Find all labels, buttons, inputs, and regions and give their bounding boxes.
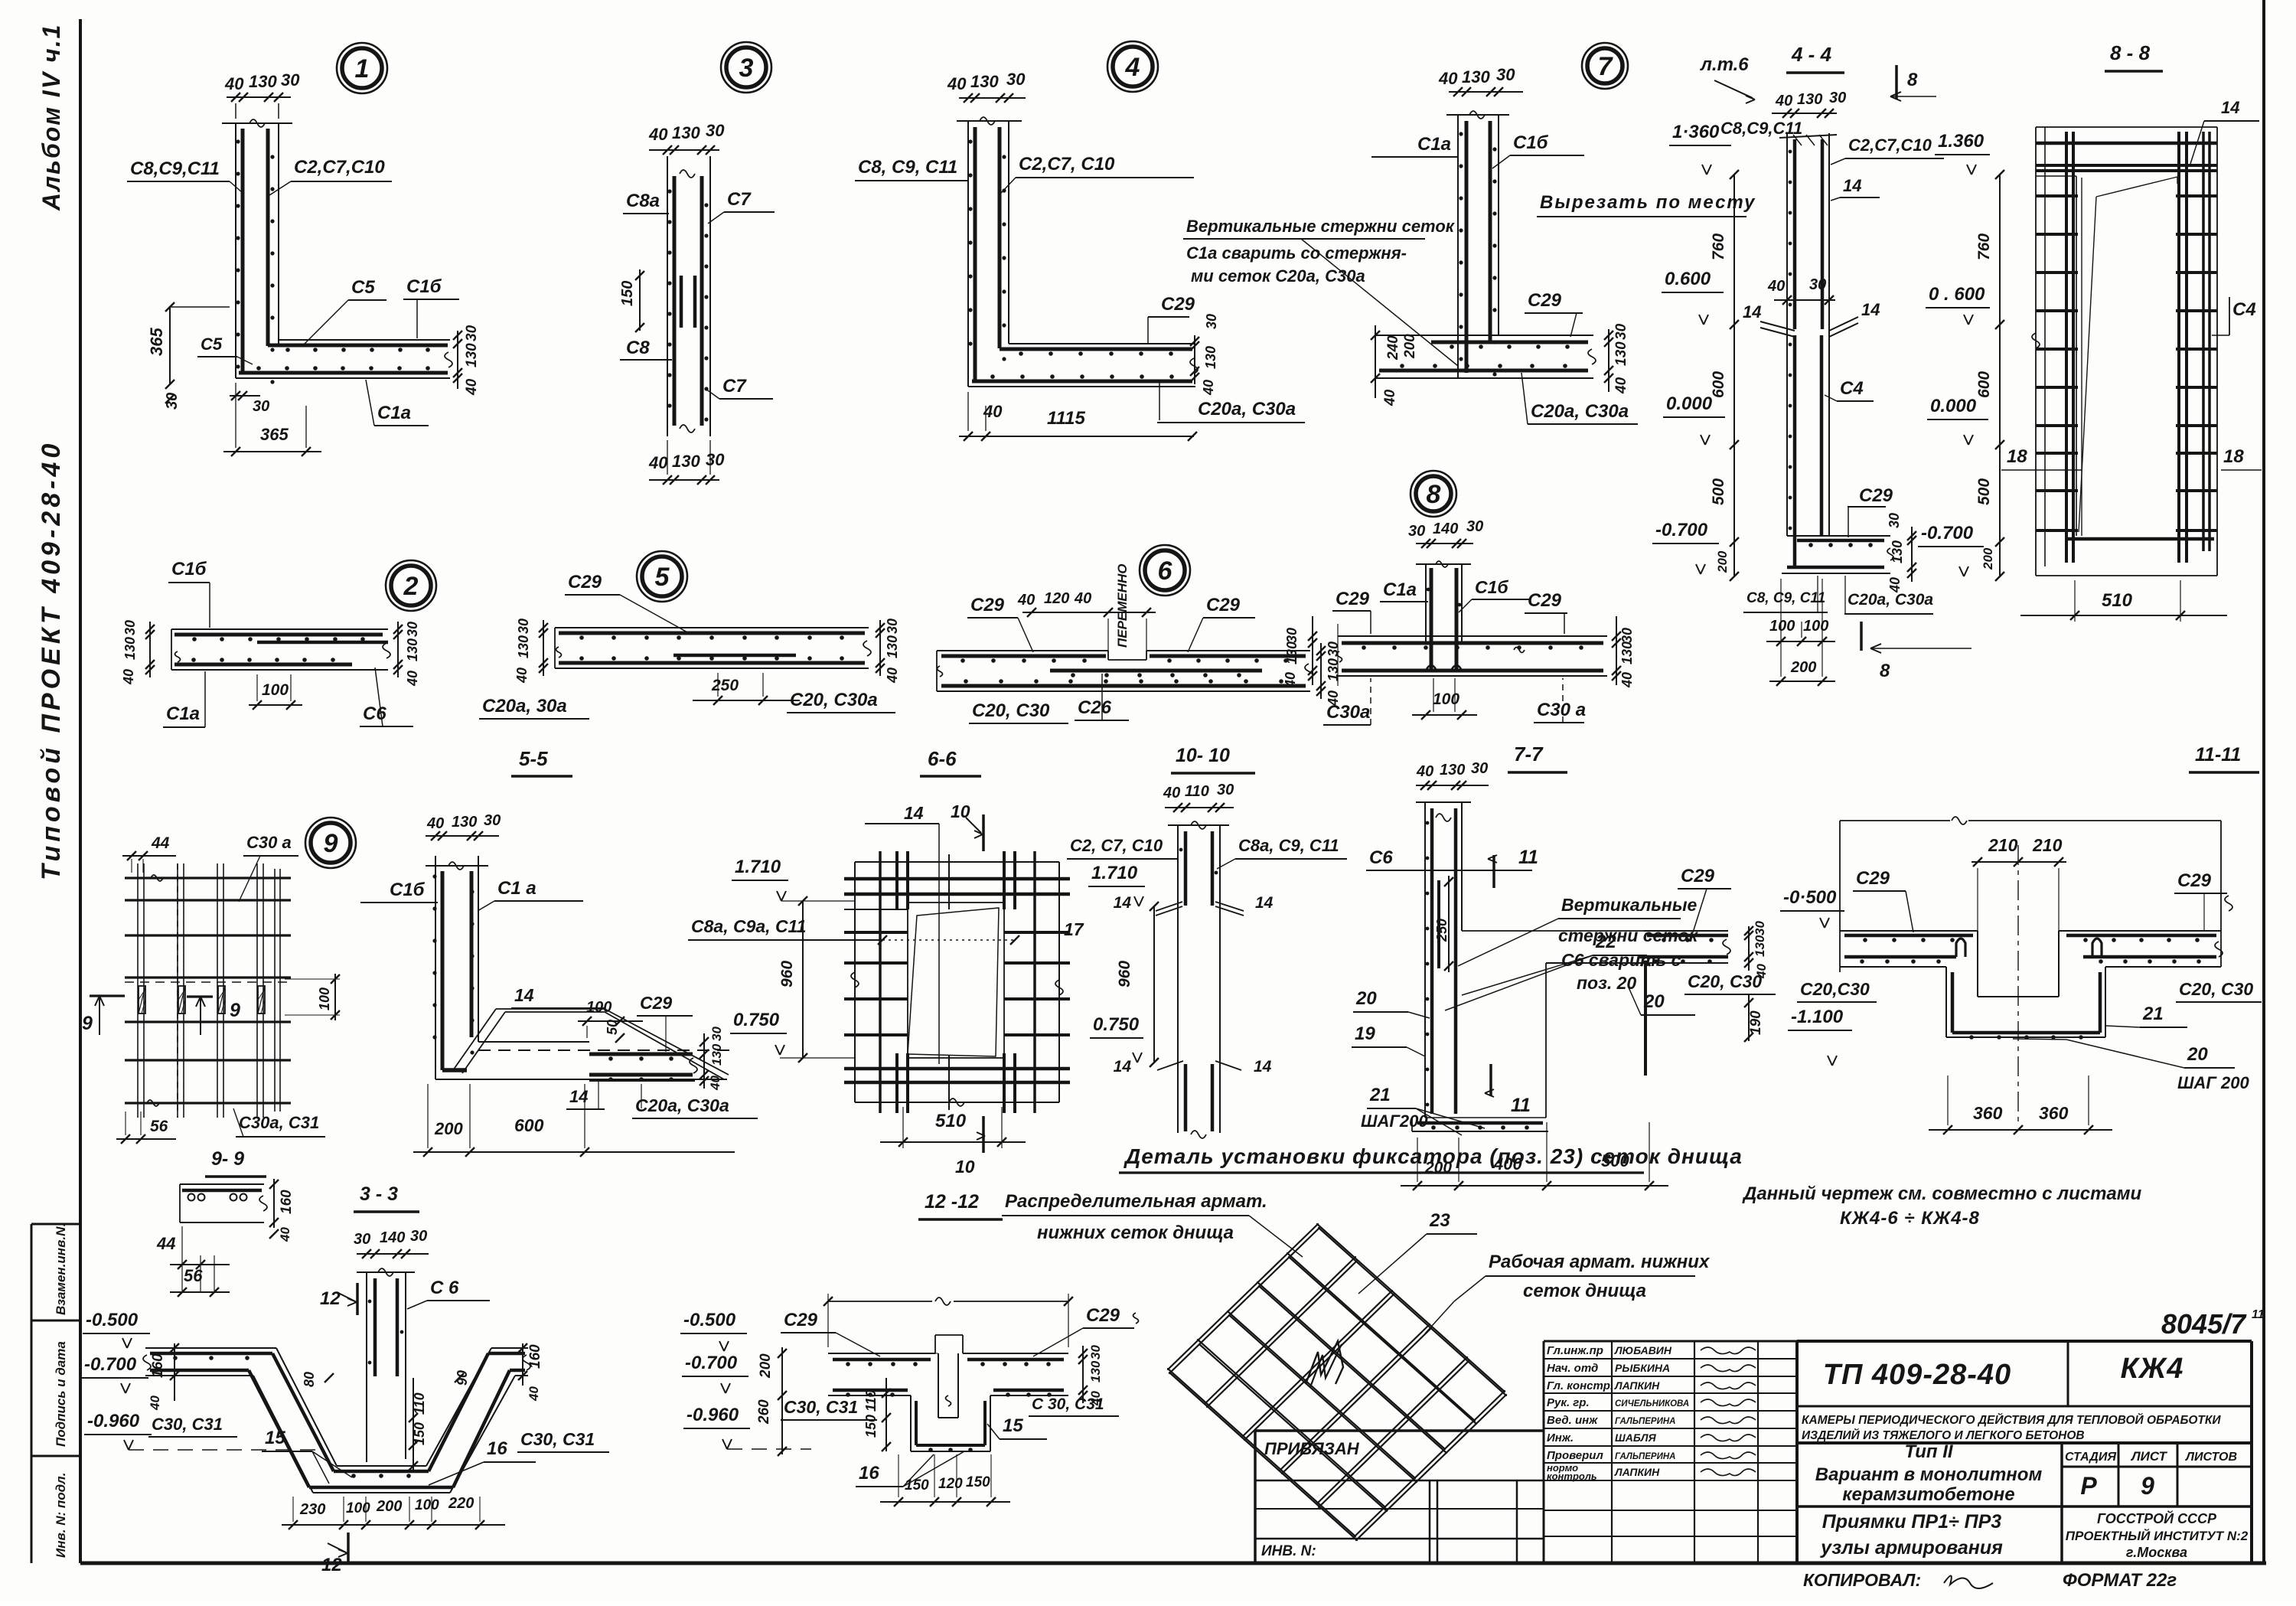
svg-text:230: 230 [299, 1501, 325, 1518]
svg-text:С20а, С30а: С20а, С30а [1198, 399, 1296, 419]
svg-text:-0.700: -0.700 [685, 1353, 738, 1373]
svg-text:30: 30 [410, 1228, 427, 1245]
svg-text:130: 130 [885, 635, 900, 658]
svg-text:44: 44 [151, 834, 170, 852]
svg-text:960: 960 [1116, 961, 1133, 987]
svg-text:С 30, С31: С 30, С31 [1032, 1395, 1104, 1413]
svg-text:18: 18 [2223, 446, 2244, 467]
svg-text:КОПИРОВАЛ:: КОПИРОВАЛ: [1803, 1570, 1921, 1590]
svg-text:0.000: 0.000 [1666, 393, 1713, 414]
svg-text:365: 365 [147, 328, 166, 356]
svg-text:1115: 1115 [1047, 408, 1085, 429]
svg-text:130: 130 [1613, 341, 1629, 366]
svg-text:100: 100 [1769, 618, 1795, 635]
svg-text:130: 130 [672, 452, 700, 471]
svg-text:0.750: 0.750 [733, 1010, 780, 1030]
svg-text:0.750: 0.750 [1093, 1014, 1140, 1035]
svg-text:С30, С31: С30, С31 [152, 1415, 223, 1434]
svg-text:ЛИСТОВ: ЛИСТОВ [2185, 1451, 2237, 1464]
svg-text:20: 20 [1643, 991, 1665, 1012]
svg-text:200: 200 [758, 1353, 774, 1379]
svg-text:РЫБКИНА: РЫБКИНА [1615, 1362, 1670, 1374]
svg-text:С4: С4 [2232, 299, 2256, 320]
svg-text:500: 500 [1975, 478, 1993, 505]
svg-text:-1.100: -1.100 [1791, 1007, 1844, 1027]
svg-text:30: 30 [1284, 628, 1300, 643]
svg-text:30: 30 [1829, 90, 1846, 106]
svg-text:С7: С7 [722, 376, 747, 397]
svg-text:С8, С9, С11: С8, С9, С11 [1746, 590, 1825, 606]
svg-text:С20а, С30а: С20а, С30а [1531, 401, 1629, 422]
svg-text:С2,С7, С10: С2,С7, С10 [1019, 154, 1115, 175]
svg-text:90: 90 [455, 1370, 470, 1386]
svg-text:контроль: контроль [1547, 1471, 1597, 1482]
svg-text:Вед. инж: Вед. инж [1547, 1414, 1598, 1427]
svg-text:130: 130 [1203, 346, 1218, 369]
svg-text:110: 110 [1185, 783, 1209, 800]
svg-text:40: 40 [1201, 380, 1216, 396]
svg-text:200: 200 [1402, 334, 1418, 359]
svg-text:С2, С7, С10: С2, С7, С10 [1070, 836, 1163, 855]
svg-text:30: 30 [164, 393, 181, 410]
svg-text:узлы армирования: узлы армирования [1819, 1537, 2003, 1559]
svg-text:8: 8 [1907, 70, 1918, 90]
svg-text:40: 40 [1613, 377, 1629, 394]
svg-text:Гл. констр.: Гл. констр. [1547, 1379, 1613, 1392]
svg-text:50: 50 [605, 1020, 620, 1035]
svg-text:100: 100 [415, 1497, 439, 1513]
svg-text:30: 30 [1809, 276, 1826, 293]
svg-text:11-11: 11-11 [2195, 744, 2241, 765]
svg-text:С29: С29 [1086, 1305, 1120, 1326]
svg-text:210: 210 [1988, 835, 2018, 855]
svg-text:С1б: С1б [390, 880, 426, 900]
svg-text:ПЕРЕМЕННО: ПЕРЕМЕННО [1115, 563, 1130, 648]
svg-text:Данный чертеж см. совместно с: Данный чертеж см. совместно с листами [1742, 1183, 2142, 1204]
svg-text:С30, С31: С30, С31 [520, 1429, 595, 1449]
svg-text:20: 20 [1355, 988, 1377, 1009]
svg-text:-0.500: -0.500 [86, 1310, 139, 1330]
svg-text:130: 130 [1797, 91, 1822, 108]
svg-text:С29: С29 [1859, 485, 1893, 506]
svg-text:С8,С9,С11: С8,С9,С11 [130, 158, 220, 179]
svg-text:С6: С6 [363, 703, 386, 724]
svg-text:керамзитобетоне: керамзитобетоне [1842, 1484, 2014, 1505]
svg-text:40: 40 [1416, 763, 1433, 780]
svg-text:600: 600 [1975, 371, 1993, 398]
svg-text:С30 а: С30 а [246, 833, 292, 852]
svg-text:30: 30 [1204, 314, 1219, 329]
svg-text:100: 100 [1803, 618, 1828, 635]
svg-text:Вертикальные: Вертикальные [1561, 895, 1697, 915]
svg-text:С1б: С1б [406, 276, 442, 297]
svg-text:30: 30 [1217, 782, 1234, 798]
svg-text:130: 130 [1462, 67, 1490, 87]
svg-text:500: 500 [1710, 478, 1727, 505]
svg-text:10: 10 [955, 1157, 975, 1177]
svg-text:9: 9 [82, 1013, 93, 1034]
svg-text:14: 14 [1255, 894, 1274, 912]
svg-text:С1б: С1б [171, 559, 207, 579]
svg-text:40: 40 [1283, 672, 1298, 688]
svg-text:130: 130 [516, 635, 531, 658]
svg-text:40: 40 [121, 669, 136, 685]
svg-text:14: 14 [1114, 894, 1132, 912]
svg-text:С20, С30: С20, С30 [972, 700, 1050, 721]
svg-text:130: 130 [1890, 540, 1905, 563]
svg-text:30: 30 [706, 450, 725, 469]
svg-text:С29: С29 [1336, 589, 1370, 609]
svg-text:4: 4 [1125, 53, 1140, 82]
svg-text:23: 23 [1429, 1210, 1450, 1231]
svg-text:56: 56 [150, 1118, 168, 1135]
svg-text:100: 100 [346, 1500, 370, 1516]
svg-text:210: 210 [2032, 835, 2063, 855]
svg-text:14: 14 [904, 803, 924, 823]
svg-text:С29: С29 [1206, 595, 1241, 615]
svg-text:40: 40 [708, 1076, 722, 1091]
svg-text:40: 40 [527, 1386, 541, 1402]
svg-text:120: 120 [938, 1476, 963, 1492]
svg-text:30: 30 [1471, 760, 1488, 777]
svg-text:С29: С29 [970, 595, 1005, 615]
svg-text:С1б: С1б [1475, 577, 1508, 597]
svg-text:40: 40 [426, 815, 444, 832]
svg-text:200: 200 [1715, 550, 1730, 573]
svg-text:9: 9 [324, 829, 338, 858]
svg-text:КАМЕРЫ ПЕРИОДИЧЕСКОГО ДЕЙСТВИЯ: КАМЕРЫ ПЕРИОДИЧЕСКОГО ДЕЙСТВИЯ ДЛЯ ТЕПЛО… [1802, 1413, 2221, 1427]
svg-text:Инж.: Инж. [1547, 1431, 1574, 1444]
svg-text:нижних сеток днища: нижних сеток днища [1037, 1222, 1234, 1243]
svg-text:КЖ4: КЖ4 [2121, 1353, 2184, 1385]
svg-text:30: 30 [405, 622, 420, 637]
svg-text:40: 40 [1619, 672, 1635, 688]
svg-text:22: 22 [1595, 932, 1616, 952]
svg-text:Инв. N: подл.: Инв. N: подл. [54, 1473, 68, 1558]
svg-text:Рук. гр.: Рук. гр. [1547, 1396, 1590, 1409]
svg-text:160: 160 [279, 1190, 295, 1214]
svg-text:С30, С31: С30, С31 [784, 1397, 858, 1417]
svg-text:40: 40 [648, 453, 668, 472]
svg-text:КЖ4-6 ÷ КЖ4-8: КЖ4-6 ÷ КЖ4-8 [1840, 1208, 1980, 1229]
svg-text:Приямки ПР1÷ ПР3: Приямки ПР1÷ ПР3 [1822, 1511, 2002, 1533]
svg-text:С29: С29 [2177, 870, 2212, 891]
svg-text:160: 160 [527, 1344, 543, 1369]
svg-text:100: 100 [1433, 690, 1459, 708]
svg-text:9: 9 [230, 1000, 240, 1021]
svg-text:ЛАПКИН: ЛАПКИН [1614, 1466, 1660, 1478]
svg-text:С29: С29 [1528, 590, 1562, 611]
svg-text:0.600: 0.600 [1665, 269, 1711, 289]
svg-text:130: 130 [1326, 658, 1341, 681]
svg-text:С1а: С1а [1417, 134, 1451, 155]
svg-text:40: 40 [1754, 964, 1769, 979]
svg-text:ГОССТРОЙ СССР: ГОССТРОЙ СССР [2097, 1510, 2217, 1526]
svg-text:130: 130 [464, 343, 480, 367]
svg-text:30: 30 [1326, 641, 1341, 657]
svg-text:200: 200 [434, 1119, 463, 1138]
svg-text:510: 510 [2102, 590, 2133, 611]
svg-text:18: 18 [2007, 446, 2027, 467]
svg-text:5: 5 [655, 563, 670, 592]
svg-text:11: 11 [1511, 1095, 1531, 1116]
svg-text:130: 130 [1284, 641, 1300, 664]
svg-text:100: 100 [317, 987, 332, 1010]
svg-text:40: 40 [148, 1395, 162, 1411]
svg-text:С4: С4 [1840, 378, 1864, 399]
svg-text:Рабочая армат. нижних: Рабочая армат. нижних [1489, 1252, 1711, 1272]
svg-text:ГАЛЬПЕРИНА: ГАЛЬПЕРИНА [1615, 1452, 1675, 1461]
svg-text:Р: Р [2080, 1472, 2097, 1500]
svg-text:17: 17 [1064, 919, 1084, 939]
svg-text:Проверил: Проверил [1547, 1449, 1603, 1462]
svg-text:-0.700: -0.700 [1921, 523, 1974, 543]
svg-text:30: 30 [1408, 523, 1425, 540]
svg-text:30: 30 [464, 325, 480, 341]
svg-text:760: 760 [1975, 233, 1993, 260]
svg-text:40: 40 [1163, 785, 1180, 801]
svg-text:40: 40 [1074, 590, 1091, 607]
svg-text:11: 11 [2252, 1308, 2265, 1321]
svg-text:21: 21 [2142, 1004, 2164, 1024]
svg-text:14: 14 [1114, 1058, 1132, 1076]
svg-text:14: 14 [1743, 302, 1761, 322]
svg-text:16: 16 [859, 1463, 879, 1484]
svg-text:140: 140 [380, 1229, 405, 1246]
svg-text:С29: С29 [1681, 866, 1715, 886]
svg-text:20: 20 [2187, 1044, 2208, 1065]
svg-text:1.360: 1.360 [1938, 131, 1985, 152]
svg-text:110: 110 [863, 1389, 879, 1412]
svg-text:40: 40 [514, 668, 530, 684]
svg-text:1·360: 1·360 [1672, 122, 1720, 142]
svg-text:0 . 600: 0 . 600 [1929, 284, 1985, 305]
svg-text:100: 100 [586, 999, 612, 1016]
svg-text:1: 1 [355, 54, 370, 83]
svg-text:С30 а: С30 а [1537, 700, 1586, 720]
svg-text:С7: С7 [727, 189, 752, 210]
svg-text:6: 6 [1158, 557, 1173, 586]
svg-text:40: 40 [464, 378, 480, 396]
svg-text:40: 40 [947, 74, 967, 93]
svg-text:11: 11 [1518, 847, 1538, 868]
svg-text:ПРИВЯЗАН: ПРИВЯЗАН [1264, 1439, 1360, 1458]
svg-text:С 6: С 6 [430, 1278, 459, 1298]
svg-text:130: 130 [1088, 1360, 1103, 1382]
svg-text:40: 40 [1382, 389, 1398, 406]
svg-text:ЛЮБАВИН: ЛЮБАВИН [1614, 1344, 1672, 1356]
svg-text:360: 360 [2039, 1103, 2069, 1123]
svg-text:30: 30 [1088, 1345, 1103, 1360]
svg-text:14: 14 [1861, 300, 1880, 319]
svg-text:1.710: 1.710 [1091, 863, 1138, 883]
svg-text:С29: С29 [1161, 294, 1195, 315]
svg-text:С2,С7,С10: С2,С7,С10 [1848, 135, 1932, 155]
svg-text:40: 40 [1775, 93, 1792, 109]
svg-text:С20а, С30а: С20а, С30а [635, 1095, 729, 1115]
svg-text:120: 120 [1044, 590, 1069, 607]
svg-text:С20а, С30а: С20а, С30а [1848, 591, 1933, 609]
svg-text:240: 240 [1385, 335, 1401, 361]
svg-text:-0.960: -0.960 [687, 1405, 739, 1425]
svg-text:760: 760 [1710, 233, 1727, 260]
svg-text:0.000: 0.000 [1930, 396, 1977, 416]
svg-text:ПРОЕКТНЫЙ ИНСТИТУТ N:2: ПРОЕКТНЫЙ ИНСТИТУТ N:2 [2066, 1528, 2249, 1543]
svg-text:130: 130 [1440, 762, 1465, 779]
svg-text:200: 200 [376, 1498, 402, 1515]
svg-text:8: 8 [1880, 661, 1890, 681]
svg-text:30: 30 [253, 398, 269, 415]
svg-text:15: 15 [265, 1428, 285, 1448]
svg-text:30: 30 [354, 1231, 370, 1248]
svg-text:-0.500: -0.500 [683, 1310, 736, 1330]
svg-text:С29: С29 [640, 993, 672, 1013]
svg-text:8045/7: 8045/7 [2161, 1308, 2247, 1340]
svg-text:8: 8 [1427, 480, 1441, 509]
svg-text:поз. 20: поз. 20 [1577, 973, 1636, 993]
svg-text:30: 30 [516, 619, 531, 634]
svg-text:150: 150 [619, 281, 636, 306]
svg-text:С20, С30: С20, С30 [1688, 971, 1762, 991]
svg-text:56: 56 [184, 1266, 203, 1285]
svg-text:С30а, С31: С30а, С31 [239, 1113, 319, 1132]
svg-text:л.т.6: л.т.6 [1700, 54, 1749, 75]
svg-text:40: 40 [1017, 592, 1035, 609]
svg-text:С6: С6 [1369, 847, 1393, 868]
svg-text:150: 150 [863, 1415, 879, 1438]
svg-text:40: 40 [405, 671, 420, 687]
svg-text:12: 12 [321, 1555, 342, 1575]
svg-text:Деталь установки фиксатора (по: Деталь установки фиксатора (поз. 23) сет… [1124, 1144, 1743, 1168]
svg-text:130: 130 [249, 72, 277, 91]
svg-text:40: 40 [648, 125, 668, 144]
svg-text:30: 30 [1006, 70, 1026, 89]
svg-text:130: 130 [1753, 935, 1767, 957]
svg-text:Типовой ПРОЕКТ 409-28-40: Типовой ПРОЕКТ 409-28-40 [37, 440, 66, 880]
svg-text:стержни сеток: стержни сеток [1558, 925, 1699, 945]
svg-text:30: 30 [709, 1027, 724, 1041]
svg-text:7: 7 [1598, 52, 1614, 81]
svg-text:600: 600 [514, 1115, 544, 1135]
svg-text:14: 14 [1254, 1058, 1272, 1076]
svg-text:ЛИСТ: ЛИСТ [2130, 1449, 2168, 1464]
svg-text:130: 130 [405, 638, 420, 661]
svg-text:С1а: С1а [166, 703, 200, 724]
svg-text:ИНВ. N:: ИНВ. N: [1261, 1543, 1316, 1559]
svg-text:Взамен.инв.N:: Взамен.инв.N: [54, 1222, 68, 1315]
svg-text:14: 14 [514, 985, 534, 1005]
svg-text:С20, С30а: С20, С30а [790, 690, 878, 710]
svg-text:Тип II: Тип II [1904, 1441, 1953, 1462]
svg-text:ГАЛЬПЕРИНА: ГАЛЬПЕРИНА [1615, 1417, 1675, 1426]
svg-text:-0·500: -0·500 [1783, 887, 1837, 908]
svg-text:СТАДИЯ: СТАДИЯ [2065, 1451, 2116, 1464]
svg-text:250: 250 [711, 677, 739, 694]
svg-text:44: 44 [156, 1234, 175, 1253]
svg-text:2: 2 [403, 572, 419, 601]
svg-text:Вырезать по месту: Вырезать по месту [1540, 192, 1756, 213]
svg-text:100: 100 [262, 681, 289, 699]
svg-text:Гл.инж.пр: Гл.инж.пр [1547, 1344, 1603, 1357]
svg-text:140: 140 [1433, 521, 1458, 537]
svg-text:30: 30 [484, 812, 501, 829]
svg-text:14: 14 [569, 1087, 588, 1106]
svg-text:130: 130 [122, 637, 138, 660]
svg-text:510: 510 [935, 1111, 967, 1131]
svg-text:Распределительная армат.: Распределительная армат. [1005, 1191, 1267, 1212]
svg-text:190: 190 [1748, 1010, 1764, 1035]
svg-text:ИЗДЕЛИЙ ИЗ ТЯЖЕЛОГО И ЛЕГКОГО: ИЗДЕЛИЙ ИЗ ТЯЖЕЛОГО И ЛЕГКОГО БЕТОНОВ [1802, 1428, 2085, 1442]
svg-text:Нач. отд: Нач. отд [1547, 1362, 1598, 1375]
svg-text:С8а, С9а, С11: С8а, С9а, С11 [691, 916, 806, 936]
svg-text:150: 150 [905, 1477, 929, 1493]
svg-text:4 - 4: 4 - 4 [1791, 43, 1832, 66]
svg-text:21: 21 [1369, 1085, 1391, 1105]
svg-text:40: 40 [224, 74, 244, 93]
svg-text:С2,С7,С10: С2,С7,С10 [294, 157, 385, 178]
svg-text:9: 9 [2141, 1472, 2154, 1500]
svg-text:ЛАПКИН: ЛАПКИН [1614, 1379, 1660, 1392]
svg-text:С8, С9, С11: С8, С9, С11 [858, 157, 957, 178]
svg-text:19: 19 [1355, 1023, 1375, 1044]
svg-text:130: 130 [709, 1043, 724, 1066]
svg-text:ШАГ200: ШАГ200 [1361, 1111, 1428, 1131]
svg-text:7-7: 7-7 [1514, 743, 1544, 765]
svg-text:30: 30 [1613, 323, 1629, 340]
svg-text:130: 130 [672, 123, 700, 142]
svg-text:130: 130 [452, 814, 477, 831]
svg-text:130: 130 [970, 72, 999, 91]
svg-text:-0.700: -0.700 [84, 1354, 137, 1375]
svg-text:14: 14 [2221, 98, 2239, 117]
svg-text:40: 40 [1438, 69, 1458, 88]
svg-text:6-6: 6-6 [928, 747, 957, 770]
svg-text:г.Москва: г.Москва [2126, 1545, 2187, 1560]
svg-text:30: 30 [1466, 518, 1483, 535]
svg-text:9- 9: 9- 9 [211, 1148, 244, 1170]
svg-text:С29: С29 [784, 1310, 818, 1330]
svg-text:С5: С5 [201, 335, 223, 354]
svg-text:-0.700: -0.700 [1655, 520, 1708, 540]
svg-text:14: 14 [1843, 176, 1861, 195]
svg-text:220: 220 [448, 1495, 474, 1512]
svg-text:30: 30 [1887, 513, 1902, 528]
svg-text:ШАГ 200: ШАГ 200 [2177, 1073, 2250, 1092]
svg-text:С8: С8 [626, 338, 650, 358]
svg-text:С29: С29 [1856, 868, 1890, 889]
svg-text:30: 30 [1619, 628, 1635, 643]
svg-text:80: 80 [302, 1372, 317, 1387]
svg-text:40: 40 [1767, 278, 1785, 295]
svg-text:С29: С29 [568, 572, 602, 592]
svg-text:С1а: С1а [1383, 579, 1417, 600]
svg-text:С20,С30: С20,С30 [1800, 979, 1870, 999]
svg-text:3 - 3: 3 - 3 [360, 1183, 398, 1205]
svg-text:ФОРМАТ 22г: ФОРМАТ 22г [2063, 1570, 2177, 1591]
svg-text:40: 40 [278, 1227, 292, 1242]
svg-text:С5: С5 [351, 277, 375, 298]
svg-text:С1а: С1а [377, 403, 411, 423]
svg-text:12: 12 [320, 1288, 341, 1309]
svg-text:сеток днища: сеток днища [1523, 1281, 1646, 1301]
svg-text:30: 30 [885, 619, 900, 634]
svg-text:Вертикальные стержни сеток: Вертикальные стержни сеток [1186, 217, 1456, 236]
svg-text:С1б: С1б [1513, 132, 1549, 153]
svg-text:150: 150 [966, 1474, 990, 1490]
svg-text:12 -12: 12 -12 [925, 1191, 979, 1213]
svg-text:30: 30 [122, 620, 138, 635]
svg-text:С29: С29 [1528, 290, 1562, 311]
